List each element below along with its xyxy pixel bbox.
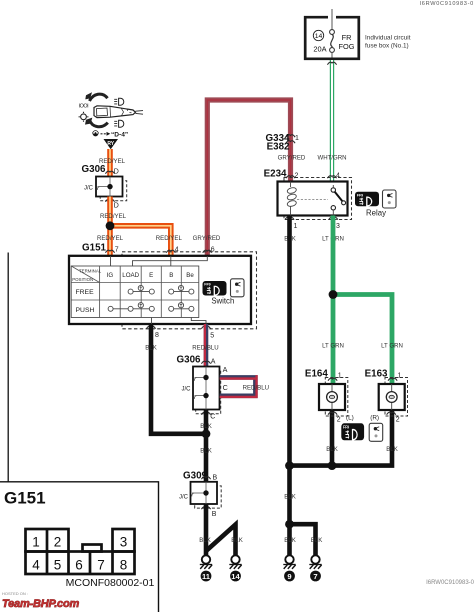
svg-text:LT GRN: LT GRN (322, 343, 344, 350)
ground 11 (200, 555, 212, 569)
upper rotate arrow (90, 94, 108, 101)
page frame left line (7, 253, 9, 482)
ground 7 (309, 555, 321, 569)
svg-text:BLK: BLK (145, 345, 157, 352)
svg-text:RED/BLU: RED/BLU (192, 345, 218, 352)
lamp E164 dashed connector box (325, 378, 348, 417)
internal link pin6 to LOAD (133, 256, 208, 266)
svg-text:6: 6 (75, 558, 83, 573)
svg-text:14: 14 (315, 33, 323, 40)
stalk lever body (94, 106, 136, 118)
svg-text:1: 1 (338, 372, 342, 379)
svg-text:BLK: BLK (326, 446, 338, 453)
connector mark below fuse (327, 62, 336, 64)
fog icon relay (355, 192, 379, 207)
J/C G306 lower box (193, 367, 220, 410)
svg-text:FR: FR (342, 33, 352, 42)
svg-text:(R): (R) (370, 415, 379, 422)
connector marks at G151 pins (105, 250, 114, 253)
fog icon lamps (341, 423, 364, 440)
ground 9 (283, 555, 295, 569)
svg-text:MCONF080002-01: MCONF080002-01 (66, 577, 155, 589)
svg-text:B: B (169, 272, 173, 279)
svg-text:POSITION: POSITION (72, 277, 93, 282)
internal link pin4 to column B (170, 256, 172, 266)
svg-text:6: 6 (211, 247, 215, 254)
fuse F14 symbol (330, 30, 335, 35)
J/C G309 box (191, 482, 218, 504)
svg-text:1: 1 (294, 223, 298, 230)
svg-text:G309: G309 (183, 471, 208, 482)
svg-text:BLK: BLK (284, 494, 296, 501)
headlamp glyph lower (114, 121, 117, 126)
wire RED/YEL triangle to J/C G306 (107, 149, 113, 177)
svg-text:E382: E382 (267, 142, 290, 153)
svg-text:GRY/RED: GRY/RED (278, 154, 306, 161)
svg-text:J/C: J/C (84, 185, 94, 191)
external RED/BLU jumper A to C (220, 375, 258, 398)
svg-text:LOAD: LOAD (122, 272, 139, 279)
svg-text:FOG: FOG (338, 42, 354, 51)
svg-text:RED/YEL: RED/YEL (100, 213, 127, 220)
junction node green (329, 290, 338, 299)
svg-text:GRY/RED: GRY/RED (193, 235, 221, 242)
svg-text:A: A (211, 359, 216, 366)
terminal table (71, 266, 199, 318)
FREE row contacts (128, 285, 194, 294)
svg-text:BLK: BLK (200, 423, 212, 430)
switch bottom pins 8 and 5 (146, 326, 155, 329)
lamp E164 box (319, 384, 345, 410)
svg-text:BLK: BLK (311, 537, 323, 544)
placeholder: content sections appended below (207, 1, 474, 256)
svg-text:B: B (213, 475, 218, 482)
inset divider lines (0, 482, 159, 612)
svg-text:1: 1 (398, 372, 402, 379)
svg-text:1: 1 (32, 535, 40, 550)
indicator box relay (383, 190, 397, 208)
svg-text:4: 4 (32, 558, 40, 573)
headlamp glyph upper (114, 99, 117, 104)
svg-text:(L): (L) (346, 415, 354, 422)
svg-text:8: 8 (155, 332, 159, 339)
svg-text:BLK: BLK (200, 448, 212, 455)
indicator box lamps (369, 423, 383, 441)
svg-text:IOOI: IOOI (79, 104, 89, 110)
internal link Be column to pin5 (191, 318, 206, 325)
G151 connector face drawing (26, 529, 135, 574)
svg-text:11: 11 (202, 572, 211, 581)
svg-text:2: 2 (337, 417, 341, 424)
relay internal dashed link (297, 199, 328, 201)
ground bus from lamps (287, 411, 392, 466)
svg-text:A: A (223, 365, 228, 374)
wire RED/BLU switch pin5 to G306 A (204, 324, 209, 367)
rotary knob glyph (81, 114, 87, 120)
svg-text:BLK: BLK (284, 537, 296, 544)
branch diagonal to ground 14 (206, 525, 236, 557)
J/C G306 lower dashed offset box (196, 371, 221, 414)
indicator box switch (231, 279, 245, 297)
svg-text:E234: E234 (264, 169, 287, 180)
branch to ground 7 (290, 524, 316, 556)
J/C G306 box (96, 177, 123, 197)
svg-text:I6RW0C910983-0: I6RW0C910983-0 (426, 580, 474, 586)
svg-text:G151: G151 (4, 489, 46, 508)
wire RED/YEL G306 down to junction and G151 pin7 (107, 197, 113, 256)
svg-text:3: 3 (120, 535, 128, 550)
fuse number 14 (313, 30, 323, 40)
svg-text:5: 5 (54, 558, 62, 573)
svg-text:Individual circuit: Individual circuit (365, 35, 411, 42)
svg-text:3: 3 (336, 223, 340, 230)
D-4 note with eye icon (93, 131, 99, 137)
svg-text:9: 9 (287, 572, 291, 581)
svg-text:J/C: J/C (179, 495, 189, 501)
lamp E163 dashed connector box (385, 378, 408, 417)
J/C G309 dashed offset box (195, 486, 222, 508)
svg-text:4: 4 (175, 247, 179, 254)
lamp E163 pin 2 (387, 412, 396, 415)
svg-text:C: C (210, 414, 215, 421)
wire BLK from switch pin8 down and right to junction (151, 324, 206, 434)
svg-text:G306: G306 (82, 164, 107, 175)
pin B below G309 (201, 507, 210, 510)
svg-text:RED/YEL: RED/YEL (97, 235, 124, 242)
svg-text:HOSTED ON :: HOSTED ON : (2, 591, 28, 596)
svg-text:D: D (114, 169, 119, 176)
switch box (69, 256, 251, 324)
svg-text:G306: G306 (177, 355, 202, 366)
svg-text:C: C (223, 383, 228, 392)
svg-text:J/C: J/C (182, 387, 192, 393)
svg-text:fuse box (No.1): fuse box (No.1) (365, 43, 409, 50)
relay E234 dashed connector box (284, 178, 352, 220)
svg-text:Team-BHP.com: Team-BHP.com (2, 598, 79, 610)
svg-text:14: 14 (231, 572, 240, 581)
pin D below G306 (105, 199, 114, 202)
svg-text:E: E (149, 272, 153, 279)
svg-text:RY: RY (107, 141, 114, 147)
wire from top into fuse (331, 9, 333, 30)
branch wire RED/YEL to G151 pin4 (110, 226, 171, 256)
wire LT GRN relay pin3 down, branch to both lamps (331, 216, 336, 295)
svg-text:G151: G151 (82, 243, 107, 254)
connector G334/E382 on wire (286, 135, 295, 138)
lower rotate arrow (90, 120, 108, 127)
relay coil (290, 182, 292, 188)
fog icon switch (203, 281, 227, 296)
svg-text:BLK: BLK (199, 537, 211, 544)
J/C G306 dashed offset box (100, 181, 127, 201)
stalk tip lines (136, 111, 144, 115)
wire BLK G309 to ground 11 (204, 504, 209, 556)
junction node (106, 221, 115, 230)
wire WHT/GRN fuse to relay pin 4 (330, 60, 334, 181)
svg-text:4: 4 (336, 173, 340, 180)
svg-text:RED/YEL: RED/YEL (156, 235, 183, 242)
svg-text:Switch: Switch (211, 297, 234, 306)
junction node (202, 429, 211, 438)
junction nodes on bus (285, 461, 294, 470)
svg-text:20A: 20A (313, 45, 326, 54)
pin C below G306 (201, 412, 210, 415)
lamp E164 BLK drop (330, 411, 335, 466)
fuse box No.1 outline (305, 17, 359, 59)
internal link E column to pin8 (151, 318, 153, 325)
svg-text:8: 8 (120, 558, 128, 573)
svg-text:D: D (114, 203, 119, 210)
relay connector marks pins 2,4 (286, 176, 295, 179)
svg-text:E163: E163 (365, 368, 388, 379)
svg-text:E164: E164 (305, 368, 328, 379)
lamp E163 box (379, 384, 405, 410)
svg-text:2: 2 (54, 535, 62, 550)
svg-text:Relay: Relay (366, 209, 386, 218)
lamp E164 pin 2 (328, 412, 337, 415)
G151 dashed connector outline (122, 252, 257, 329)
svg-text:BLK: BLK (386, 446, 398, 453)
wire GRY/RED from G151 pin6 up and over to relay pin2 (207, 100, 290, 256)
svg-text:LT GRN: LT GRN (381, 343, 403, 350)
PUSH row contacts (108, 303, 194, 312)
svg-text:7: 7 (313, 572, 317, 581)
svg-text:RED/BLU: RED/BLU (243, 385, 269, 392)
svg-text:B: B (212, 511, 217, 518)
wire BLK G306 C down to junction (204, 410, 209, 482)
svg-text:Be: Be (186, 272, 194, 279)
svg-text:5: 5 (210, 333, 214, 340)
svg-text:I6RW0C910983-0: I6RW0C910983-0 (420, 1, 474, 7)
connector mark above G306 (105, 171, 114, 174)
svg-text:2: 2 (295, 173, 299, 180)
svg-text:“D-4”: “D-4” (111, 132, 128, 139)
svg-text:BLK: BLK (231, 537, 243, 544)
svg-text:WHT/GRN: WHT/GRN (317, 154, 346, 161)
wire BLK relay pin1 down to ground 9 (287, 216, 292, 557)
relay contact (331, 188, 335, 192)
ground 14 (229, 555, 241, 569)
svg-text:7: 7 (97, 558, 105, 573)
svg-text:IG: IG (107, 272, 114, 279)
wire code triangle RY (104, 139, 119, 149)
headlight stalk illustration (79, 92, 144, 138)
relay box (278, 182, 348, 216)
internal link pin7 to IG (110, 256, 112, 266)
svg-text:FREE: FREE (76, 289, 95, 296)
svg-text:1: 1 (295, 135, 299, 142)
svg-text:2: 2 (396, 417, 400, 424)
svg-text:PUSH: PUSH (76, 307, 95, 314)
svg-text:7: 7 (115, 247, 119, 254)
svg-text:TERMINAL: TERMINAL (79, 268, 102, 273)
